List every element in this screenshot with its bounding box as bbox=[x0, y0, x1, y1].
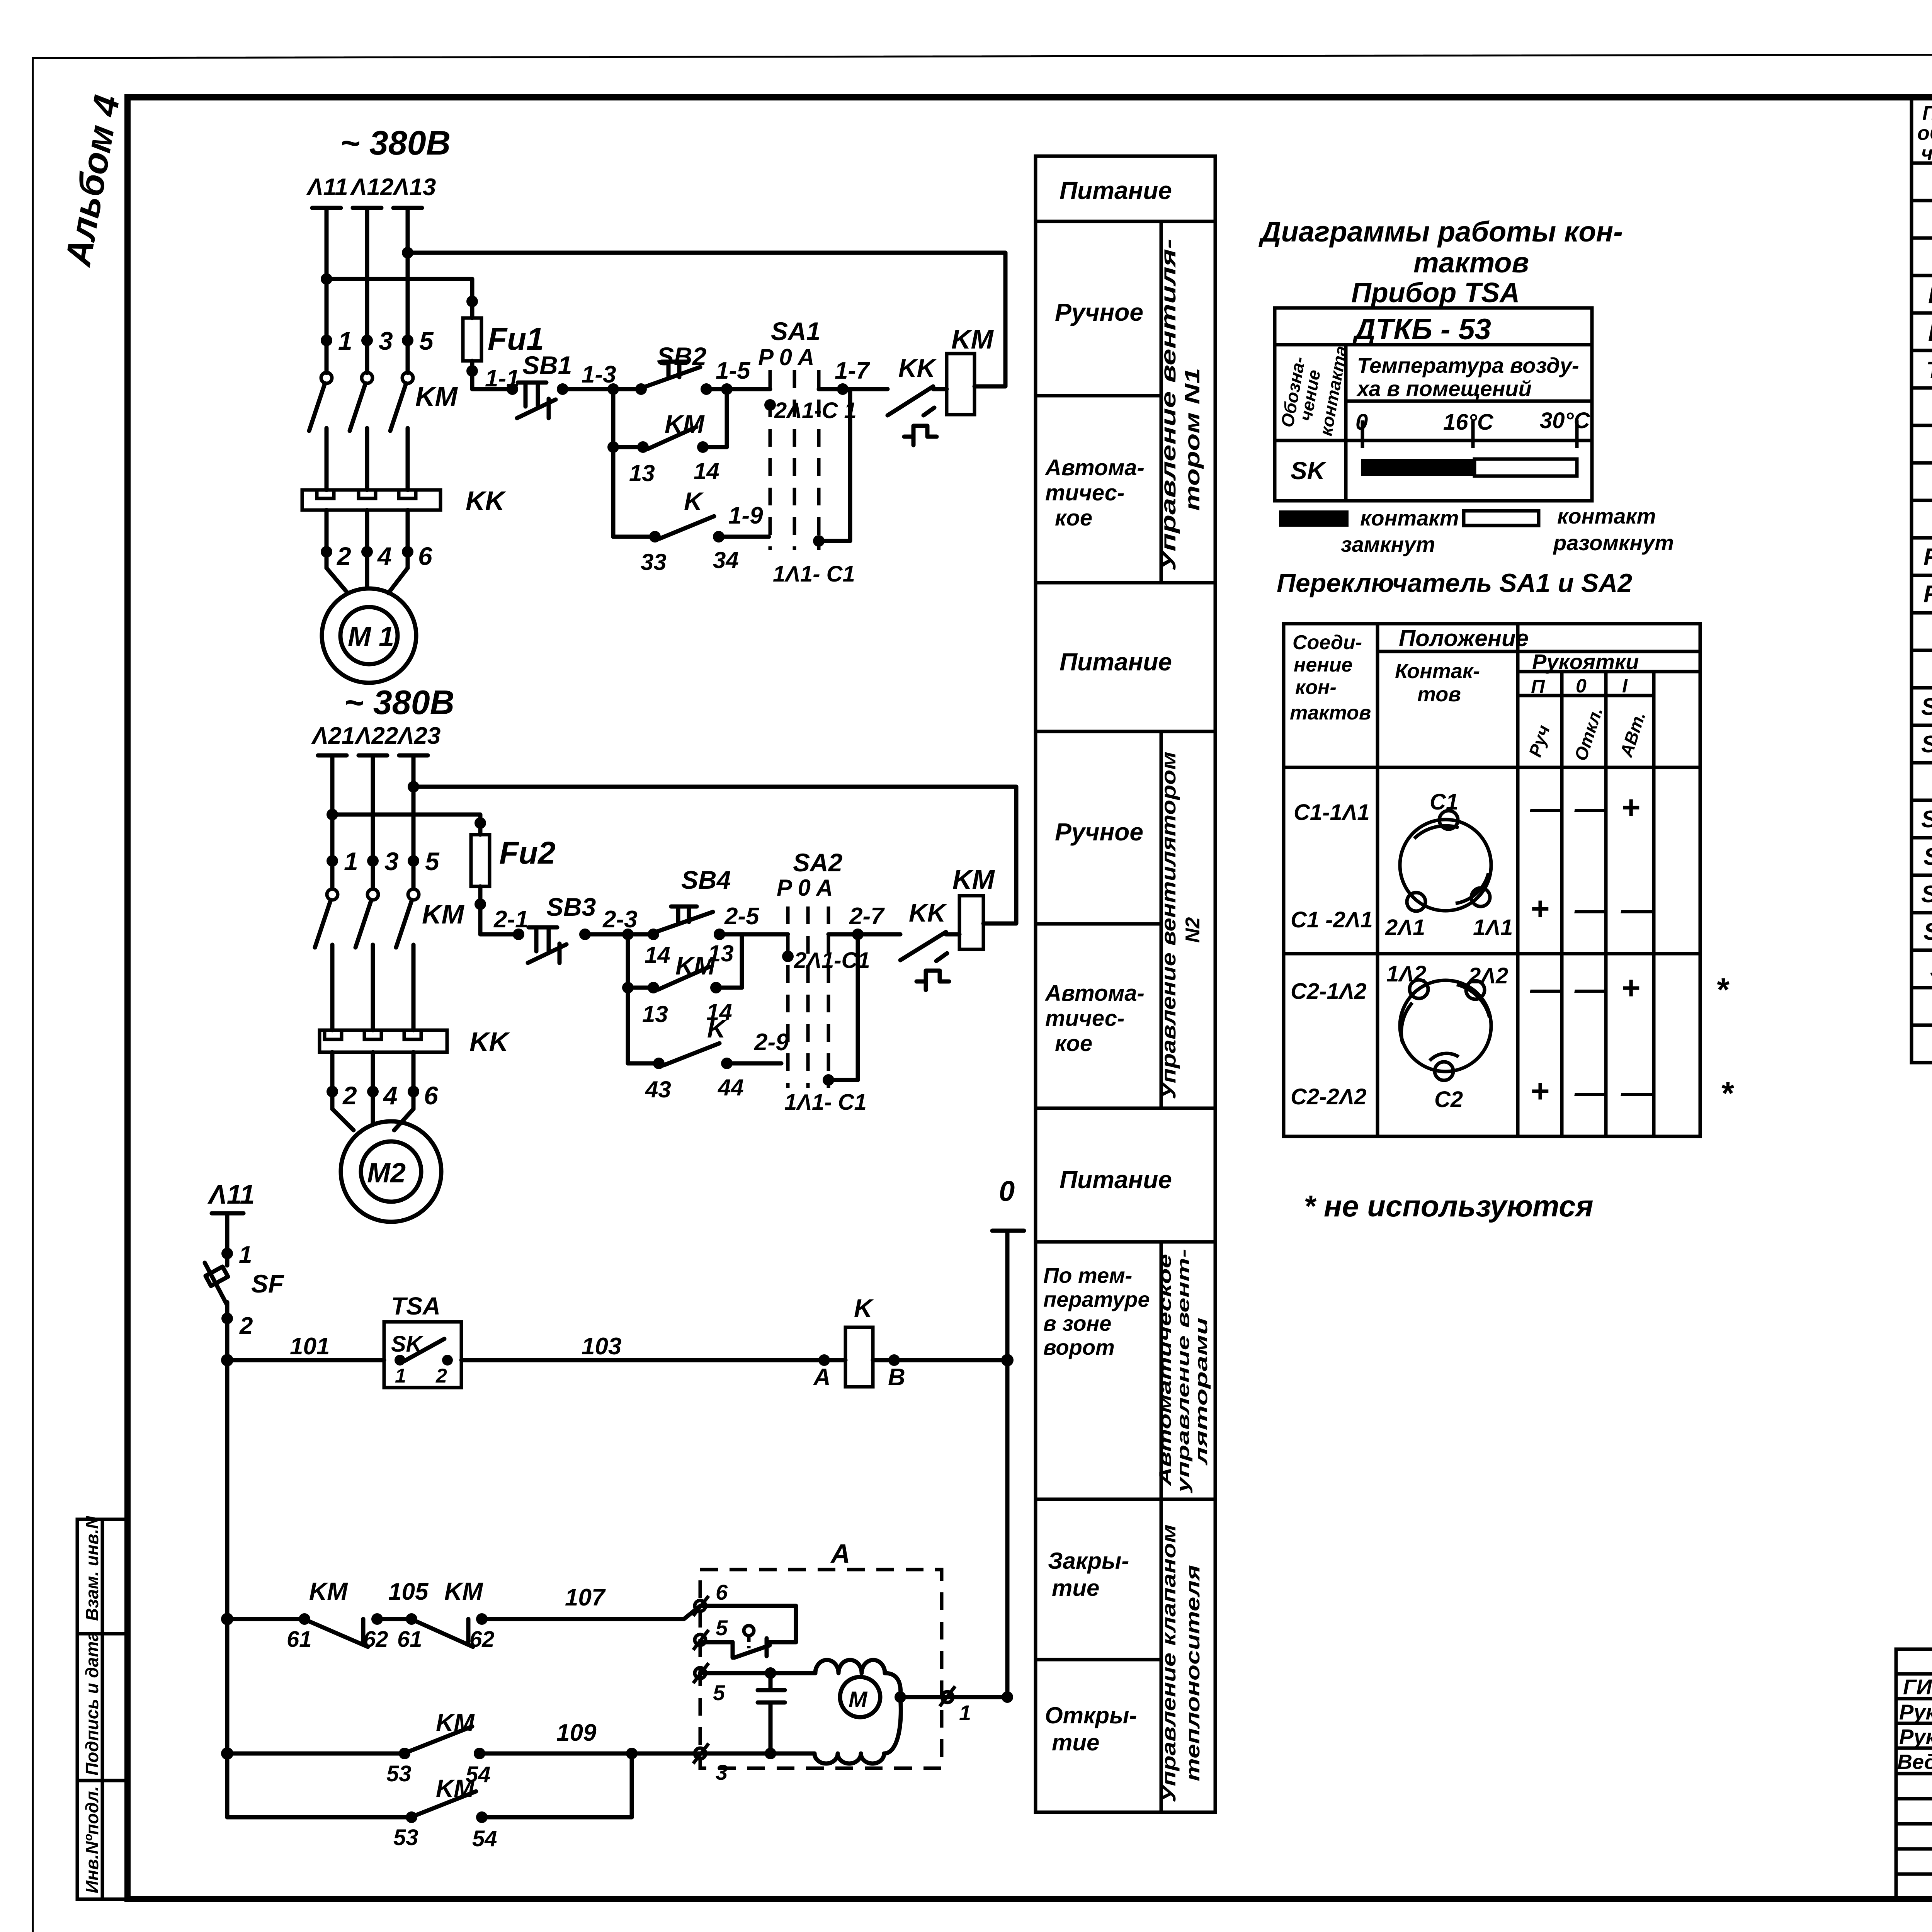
svg-text:2: 2 bbox=[342, 1081, 357, 1110]
svg-text:1Λ1- C1: 1Λ1- C1 bbox=[773, 561, 855, 587]
svg-text:тактов: тактов bbox=[1290, 702, 1371, 724]
svg-text:Рук.Гр.: Рук.Гр. bbox=[1899, 1725, 1932, 1749]
node B bbox=[888, 1354, 900, 1366]
svg-text:P 0 A: P 0 A bbox=[777, 875, 833, 901]
svg-text:кое: кое bbox=[1055, 1031, 1092, 1056]
node 2L1-C1 bbox=[782, 951, 794, 962]
DTKB-53 diagram table bbox=[1275, 308, 1592, 501]
svg-text:3: 3 bbox=[379, 327, 393, 355]
svg-text:K: K bbox=[684, 487, 704, 515]
svg-text:Автоматическое: Автоматическое bbox=[1156, 1254, 1175, 1486]
svg-text:30°C: 30°C bbox=[1540, 408, 1590, 433]
wire phase C to node 6 bbox=[412, 1052, 416, 1109]
svg-text:KM: KM bbox=[675, 951, 716, 980]
svg-text:B: B bbox=[888, 1364, 905, 1391]
wire rung segment bbox=[563, 387, 641, 391]
wire phase C to node 6 bbox=[406, 510, 410, 568]
wire phase A to node 2 bbox=[325, 510, 329, 568]
limit switch inside actuator bbox=[744, 1626, 754, 1636]
svg-text:K: K bbox=[854, 1294, 874, 1322]
wire coil to right bus bbox=[873, 1358, 1007, 1362]
svg-text:C2-2Λ2: C2-2Λ2 bbox=[1291, 1084, 1367, 1109]
svg-text:SF: SF bbox=[1930, 956, 1932, 983]
wire phase A to thermal bbox=[330, 945, 335, 1030]
fuse FU1 bbox=[463, 318, 481, 361]
wire inside from 3 bbox=[700, 1752, 815, 1756]
svg-text:Поз.: Поз. bbox=[1922, 102, 1932, 124]
SA2 pole P bbox=[786, 906, 790, 1088]
svg-text:SA1: SA1 bbox=[771, 317, 820, 345]
wire rung 4 to rung 3 bbox=[482, 1753, 632, 1817]
svg-text:109: 109 bbox=[556, 1719, 597, 1746]
svg-text:44: 44 bbox=[718, 1075, 744, 1100]
svg-text:+: + bbox=[1530, 890, 1549, 927]
svg-text:C1-1Λ1: C1-1Λ1 bbox=[1294, 800, 1370, 825]
wires into motor M2 bbox=[332, 1109, 413, 1130]
wire phase C to thermal bbox=[406, 428, 410, 490]
svg-text:Ручное: Ручное bbox=[1055, 818, 1143, 846]
svg-text:замкнут: замкнут bbox=[1341, 532, 1435, 556]
terminal 3 bbox=[693, 1743, 709, 1764]
wire motor to bus bbox=[895, 1691, 906, 1703]
left stamp strip box bbox=[77, 1519, 128, 1899]
node 1 bbox=[221, 1248, 233, 1259]
node 5 bbox=[408, 855, 419, 867]
thermal relay KK heaters bbox=[320, 1030, 447, 1052]
svg-text:нение: нение bbox=[1294, 654, 1352, 676]
svg-text:кое: кое bbox=[1055, 505, 1092, 531]
terminal 5 upper bbox=[693, 1630, 709, 1650]
svg-text:4: 4 bbox=[383, 1081, 398, 1110]
actuator motor windings upper bbox=[815, 1660, 901, 1697]
node 4 bbox=[361, 546, 373, 558]
node 2 bbox=[221, 1313, 233, 1324]
svg-text:C2: C2 bbox=[1434, 1087, 1463, 1112]
svg-text:2Λ1: 2Λ1 bbox=[1385, 915, 1425, 940]
contactor KM main contact phase B bbox=[367, 889, 378, 900]
svg-text:103: 103 bbox=[582, 1333, 621, 1360]
svg-text:Управление вентилятором: Управление вентилятором bbox=[1158, 752, 1180, 1099]
svg-text:Взам. инв.N: Взам. инв.N bbox=[82, 1516, 102, 1621]
svg-text:По тем-: По тем- bbox=[1043, 1263, 1132, 1287]
wire 14 up to rung bbox=[703, 389, 727, 447]
svg-text:Откры-: Откры- bbox=[1045, 1702, 1137, 1728]
wire phase C down bbox=[406, 208, 410, 373]
svg-text:1Λ2: 1Λ2 bbox=[1386, 961, 1426, 986]
svg-text:*: * bbox=[1716, 971, 1730, 1008]
svg-text:Закры-: Закры- bbox=[1048, 1548, 1129, 1574]
svg-text:+: + bbox=[1621, 789, 1640, 825]
svg-text:Питание: Питание bbox=[1060, 1166, 1172, 1194]
svg-text:6: 6 bbox=[424, 1081, 439, 1110]
wire rung segment bbox=[706, 387, 770, 391]
svg-text:управление вент-: управление вент- bbox=[1174, 1249, 1193, 1493]
wire fuse to rung bbox=[470, 361, 474, 389]
svg-text:—: — bbox=[1530, 790, 1563, 826]
SA2 pole 0 bbox=[806, 906, 810, 1088]
wire 14 up to rung bbox=[716, 934, 742, 988]
svg-text:4: 4 bbox=[377, 542, 392, 570]
wire phase C to thermal bbox=[412, 945, 416, 1030]
svg-text:1-5: 1-5 bbox=[716, 357, 751, 384]
contactor KM main contact phase B bbox=[362, 372, 372, 383]
svg-text:TSA: TSA bbox=[1926, 357, 1932, 384]
svg-text:1: 1 bbox=[344, 847, 358, 876]
svg-text:SF: SF bbox=[251, 1269, 284, 1298]
svg-text:тичес-: тичес- bbox=[1045, 1006, 1124, 1031]
wire phase A to node 2 bbox=[330, 1052, 335, 1109]
svg-text:ворот: ворот bbox=[1043, 1335, 1115, 1359]
svg-text:2-1: 2-1 bbox=[493, 906, 529, 933]
svg-text:—: — bbox=[1574, 971, 1607, 1007]
left control bus bbox=[221, 1354, 233, 1366]
svg-text:1: 1 bbox=[239, 1242, 252, 1268]
svg-text:KK: KK bbox=[469, 1027, 510, 1057]
svg-text:3: 3 bbox=[716, 1760, 728, 1784]
svg-text:Π: Π bbox=[1531, 676, 1545, 697]
node 3 bbox=[361, 335, 373, 346]
svg-text:53: 53 bbox=[393, 1825, 418, 1850]
svg-text:ДТКБ - 53: ДТКБ - 53 bbox=[1352, 313, 1491, 346]
wires into motor M1 bbox=[327, 568, 408, 593]
svg-text:13: 13 bbox=[629, 460, 655, 486]
svg-text:KM: KM bbox=[309, 1577, 348, 1605]
wire SF to bus bbox=[225, 1302, 230, 1360]
svg-text:K: K bbox=[707, 1014, 727, 1043]
contactor KM main contact phase C bbox=[408, 889, 419, 900]
terminal bar L11 bbox=[312, 206, 341, 210]
svg-text:SK: SK bbox=[1291, 457, 1327, 485]
svg-text:SB4: SB4 bbox=[1923, 918, 1932, 945]
svg-text:пературе: пературе bbox=[1043, 1287, 1150, 1311]
svg-text:—: — bbox=[1530, 971, 1563, 1007]
svg-text:C2-1Λ2: C2-1Λ2 bbox=[1291, 979, 1367, 1004]
svg-text:+: + bbox=[1530, 1073, 1549, 1109]
svg-text:тактов: тактов bbox=[1413, 247, 1529, 279]
svg-text:14: 14 bbox=[694, 458, 719, 484]
svg-text:Рук.БР: Рук.БР bbox=[1899, 1700, 1932, 1724]
svg-text:Диаграммы работы кон-: Диаграммы работы кон- bbox=[1258, 216, 1623, 248]
node 6 bbox=[402, 546, 413, 558]
svg-text:тие: тие bbox=[1052, 1730, 1099, 1755]
svg-text:2: 2 bbox=[435, 1365, 447, 1387]
wire phase A down bbox=[330, 755, 335, 889]
svg-text:Соеди-: Соеди- bbox=[1293, 631, 1362, 654]
svg-text:контакт: контакт bbox=[1360, 506, 1459, 530]
svg-text:Ручное: Ручное bbox=[1055, 298, 1143, 326]
actuator motor windings lower bbox=[815, 1697, 901, 1764]
svg-text:KM: KM bbox=[415, 381, 458, 412]
svg-text:ляторами: ляторами bbox=[1192, 1318, 1211, 1466]
svg-text:SB4: SB4 bbox=[681, 866, 731, 894]
node 2 bbox=[321, 546, 332, 558]
svg-text:Автома-: Автома- bbox=[1044, 981, 1145, 1006]
wire inside from 6 bbox=[700, 1606, 796, 1642]
svg-text:1: 1 bbox=[959, 1701, 971, 1725]
svg-text:6: 6 bbox=[716, 1580, 728, 1604]
motor M1 bbox=[322, 588, 416, 683]
wire rung segment bbox=[480, 932, 519, 937]
wire rung segment to KK bbox=[819, 387, 888, 391]
terminal bar L11 bbox=[212, 1211, 243, 1216]
terminal bar L23 bbox=[399, 753, 428, 758]
SA1 pole P bbox=[769, 370, 772, 550]
node 2 bbox=[327, 1086, 338, 1097]
parts list table bbox=[1912, 97, 1932, 1063]
svg-text:SB2;: SB2; bbox=[1921, 881, 1932, 908]
svg-text:KK: KK bbox=[898, 354, 937, 382]
svg-text:1-9: 1-9 bbox=[728, 502, 763, 529]
svg-text:контакт: контакт bbox=[1557, 504, 1656, 528]
svg-text:~ 380B: ~ 380B bbox=[344, 683, 454, 721]
svg-text:0: 0 bbox=[999, 1175, 1015, 1207]
wire phase B down bbox=[371, 755, 375, 889]
legend closed contact bbox=[1279, 510, 1349, 527]
svg-text:KM: KM bbox=[1928, 282, 1932, 309]
svg-text:тов: тов bbox=[1417, 683, 1461, 706]
svg-text:Λ12: Λ12 bbox=[350, 174, 393, 201]
auxiliary contact KM 13-14 bbox=[607, 441, 619, 453]
svg-text:KM: KM bbox=[444, 1577, 483, 1605]
node 1L1-C1 bbox=[823, 1074, 834, 1086]
svg-text:SA2: SA2 bbox=[1921, 731, 1932, 758]
svg-text:13: 13 bbox=[642, 1001, 668, 1027]
wire SA1 bottom to rung bbox=[819, 389, 850, 541]
svg-text:43: 43 bbox=[645, 1077, 671, 1102]
wire top branch from L23 bbox=[408, 781, 419, 793]
svg-text:Λ22: Λ22 bbox=[354, 723, 398, 749]
svg-text:Λ13: Λ13 bbox=[392, 174, 436, 201]
svg-text:обозна-: обозна- bbox=[1917, 122, 1932, 145]
wire phase B down bbox=[365, 208, 369, 373]
svg-text:SB1;: SB1; bbox=[1921, 806, 1932, 833]
svg-text:101: 101 bbox=[290, 1333, 330, 1360]
terminal bar L12 bbox=[353, 206, 381, 210]
svg-text:KM: KM bbox=[422, 899, 465, 929]
wire phase C down bbox=[412, 755, 416, 889]
svg-text:A: A bbox=[830, 1539, 850, 1569]
svg-text:тором N1: тором N1 bbox=[1181, 368, 1204, 511]
svg-text:KM: KM bbox=[952, 864, 995, 895]
svg-text:1Λ1: 1Λ1 bbox=[1473, 915, 1513, 940]
node 1 bbox=[321, 335, 332, 346]
wire control branch from L21 bbox=[327, 809, 338, 820]
rung 4 wire bbox=[227, 1815, 412, 1820]
terminal bar L22 bbox=[359, 753, 387, 758]
rung 3 junction bbox=[221, 1747, 233, 1760]
svg-text:Подпись и дата: Подпись и дата bbox=[82, 1631, 102, 1776]
svg-text:I: I bbox=[1622, 675, 1628, 697]
svg-text:62: 62 bbox=[363, 1627, 388, 1652]
svg-text:54: 54 bbox=[472, 1826, 497, 1851]
svg-text:* не используются: * не используются bbox=[1304, 1189, 1594, 1223]
svg-text:~ 380B: ~ 380B bbox=[340, 124, 451, 162]
svg-text:M: M bbox=[849, 1687, 868, 1712]
node 3 bbox=[367, 855, 379, 867]
svg-text:34: 34 bbox=[713, 547, 739, 573]
svg-text:Λ21: Λ21 bbox=[311, 723, 355, 749]
svg-text:6: 6 bbox=[418, 542, 433, 570]
wire to coil bbox=[946, 932, 959, 937]
svg-text:2Λ1-C 1: 2Λ1-C 1 bbox=[774, 398, 857, 423]
svg-text:чение: чение bbox=[1921, 142, 1932, 165]
svg-text:C1: C1 bbox=[1430, 789, 1458, 815]
svg-text:Положение: Положение bbox=[1399, 625, 1529, 651]
terminal 5 lower bbox=[693, 1663, 709, 1683]
svg-text:Управление вентиля-: Управление вентиля- bbox=[1157, 239, 1180, 571]
node 6 bbox=[408, 1086, 419, 1097]
svg-text:Переключатель SA1 и SA2: Переключатель SA1 и SA2 bbox=[1277, 568, 1632, 598]
SA1 pole 0 bbox=[793, 370, 796, 550]
svg-text:—: — bbox=[1574, 790, 1607, 826]
terminal bar L21 bbox=[318, 753, 347, 758]
svg-text:3: 3 bbox=[384, 847, 399, 876]
svg-text:Прибор TSA: Прибор TSA bbox=[1351, 277, 1520, 308]
contactor KM main contact phase A bbox=[327, 889, 338, 900]
svg-text:53: 53 bbox=[386, 1761, 412, 1786]
svg-text:C1 -2Λ1: C1 -2Λ1 bbox=[1291, 907, 1373, 932]
function column table bbox=[1036, 156, 1215, 1812]
wire rung segment to KK bbox=[828, 932, 900, 937]
node 4 bbox=[367, 1086, 379, 1097]
contactor KM main contact phase A bbox=[321, 372, 332, 383]
svg-text:33: 33 bbox=[641, 549, 667, 575]
rung 2 junction bbox=[221, 1613, 233, 1625]
svg-text:5: 5 bbox=[713, 1680, 725, 1705]
wire 34 to SA1 bbox=[719, 535, 769, 539]
SA1 contact diagram circle bbox=[1400, 820, 1491, 911]
relay contact K 33-34 bbox=[649, 531, 661, 543]
actuator motor M bbox=[840, 1677, 880, 1717]
svg-text:KK: KK bbox=[909, 898, 947, 927]
svg-text:1: 1 bbox=[338, 327, 352, 355]
svg-text:Питание: Питание bbox=[1060, 648, 1172, 676]
wire phase A to thermal bbox=[325, 428, 329, 490]
svg-text:62: 62 bbox=[469, 1627, 495, 1652]
svg-text:1: 1 bbox=[395, 1365, 406, 1387]
holding branch wire bbox=[626, 934, 630, 1063]
svg-text:ха в помещений: ха в помещений bbox=[1356, 376, 1532, 401]
node 2L1-C1 bbox=[764, 399, 776, 411]
svg-text:KM: KM bbox=[951, 324, 994, 354]
svg-text:2-7: 2-7 bbox=[849, 903, 885, 930]
wire top branch from L13 bbox=[402, 247, 413, 259]
capacitor bbox=[758, 1673, 785, 1753]
wire to coil bbox=[933, 387, 947, 391]
svg-text:+: + bbox=[1621, 969, 1640, 1006]
node A bbox=[818, 1354, 830, 1366]
wire phase B to thermal bbox=[371, 945, 375, 1030]
svg-text:2: 2 bbox=[239, 1313, 253, 1339]
svg-text:M 1: M 1 bbox=[348, 621, 394, 652]
relay contact K 43-44 bbox=[653, 1058, 665, 1069]
svg-text:Fu2: Fu2 bbox=[499, 835, 556, 871]
svg-text:KM: KM bbox=[665, 410, 705, 438]
svg-text:Автома-: Автома- bbox=[1044, 455, 1145, 480]
svg-text:KK: KK bbox=[466, 486, 507, 516]
wire from 5 lower to capacitor bbox=[700, 1671, 815, 1675]
svg-text:SB1: SB1 bbox=[522, 351, 572, 379]
svg-text:2: 2 bbox=[336, 542, 351, 570]
svg-text:0: 0 bbox=[1576, 675, 1587, 697]
holding branch wire bbox=[611, 389, 616, 537]
title block stamp bbox=[1896, 1649, 1932, 1899]
svg-text:Рукоятки: Рукоятки bbox=[1532, 650, 1639, 674]
svg-text:тичес-: тичес- bbox=[1045, 480, 1124, 505]
svg-text:1Λ1- C1: 1Λ1- C1 bbox=[784, 1090, 867, 1115]
SA positions table bbox=[1284, 624, 1700, 1136]
wire phase B to node 4 bbox=[371, 1052, 375, 1109]
svg-text:1-7: 1-7 bbox=[835, 357, 870, 384]
svg-text:5: 5 bbox=[716, 1616, 728, 1640]
svg-text:*: * bbox=[1720, 1075, 1734, 1111]
svg-text:SB3: SB3 bbox=[546, 893, 596, 921]
svg-text:тие: тие bbox=[1052, 1575, 1099, 1601]
thermal relay KK heaters bbox=[302, 490, 440, 510]
wire phase B to node 4 bbox=[365, 510, 369, 568]
svg-text:в зоне: в зоне bbox=[1043, 1311, 1111, 1335]
wire 44 to SA2 bbox=[727, 1061, 781, 1066]
node 1L1-C1 bbox=[813, 535, 825, 547]
wire rung 103 bbox=[461, 1358, 845, 1362]
svg-text:107: 107 bbox=[565, 1584, 606, 1611]
svg-text:Температура возду-: Температура возду- bbox=[1357, 353, 1579, 378]
svg-text:—: — bbox=[1574, 1074, 1607, 1110]
svg-text:A: A bbox=[813, 1364, 831, 1391]
svg-text:Fu1;: Fu1; bbox=[1923, 544, 1932, 570]
wire rung segment bbox=[472, 387, 512, 391]
svg-text:Контак-: Контак- bbox=[1395, 660, 1480, 683]
terminal 6 bbox=[693, 1596, 709, 1616]
wire rung segment bbox=[585, 932, 653, 937]
svg-text:теплоносителя: теплоносителя bbox=[1182, 1565, 1204, 1781]
svg-text:105: 105 bbox=[388, 1578, 429, 1605]
svg-text:Λ11: Λ11 bbox=[207, 1179, 255, 1209]
motor M2 bbox=[341, 1121, 441, 1222]
fuse FU2 bbox=[471, 835, 490, 886]
svg-text:61: 61 bbox=[287, 1627, 312, 1652]
svg-text:2Λ2: 2Λ2 bbox=[1468, 963, 1508, 988]
svg-text:2-5: 2-5 bbox=[724, 903, 760, 930]
terminal 1 bbox=[940, 1686, 955, 1706]
svg-text:SA1;: SA1; bbox=[1921, 694, 1932, 720]
SA1 pole A bbox=[817, 370, 821, 550]
svg-text:ГИП: ГИП bbox=[1903, 1675, 1932, 1699]
svg-text:N2: N2 bbox=[1182, 917, 1204, 943]
wire rung segment bbox=[719, 932, 788, 937]
svg-text:—: — bbox=[1621, 1074, 1654, 1110]
svg-text:5: 5 bbox=[425, 847, 440, 876]
svg-text:Питание: Питание bbox=[1060, 177, 1172, 204]
svg-text:61: 61 bbox=[397, 1627, 422, 1652]
wire fuse to rung bbox=[478, 886, 483, 934]
svg-text:Λ23: Λ23 bbox=[397, 723, 440, 749]
node 5 bbox=[402, 335, 413, 346]
svg-text:кон-: кон- bbox=[1295, 676, 1337, 699]
contactor KM main contact phase C bbox=[402, 372, 413, 383]
svg-text:Инв.Nºподл.: Инв.Nºподл. bbox=[82, 1786, 102, 1893]
SA2 contact diagram circle bbox=[1400, 980, 1491, 1071]
svg-text:SA2: SA2 bbox=[793, 848, 843, 877]
svg-text:разомкнут: разомкнут bbox=[1553, 531, 1674, 555]
terminal bar L13 bbox=[393, 206, 422, 210]
right control bus bbox=[1005, 1231, 1010, 1697]
svg-text:TSA: TSA bbox=[391, 1292, 440, 1320]
wire control branch from L11 bbox=[321, 273, 332, 285]
svg-text:2-9: 2-9 bbox=[754, 1029, 789, 1056]
svg-text:M2: M2 bbox=[367, 1158, 406, 1189]
legend open contact bbox=[1464, 511, 1539, 526]
